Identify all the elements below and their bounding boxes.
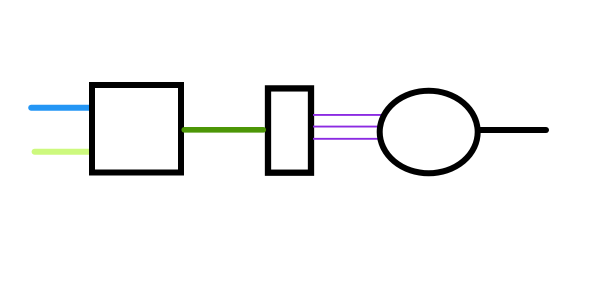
wire: blue input line	[31, 105, 92, 111]
block U1: large square box	[92, 85, 181, 173]
node: ellipse element	[380, 91, 478, 174]
wire: purple bus line 3	[313, 138, 390, 140]
wire: purple bus line 2	[313, 126, 390, 128]
block U2: narrow rectangle box	[268, 88, 311, 172]
wire: black output line	[478, 127, 546, 133]
wire: yellow-green input line	[35, 149, 92, 155]
wire: purple bus line 1	[313, 114, 390, 116]
wire: green connecting line	[184, 127, 263, 133]
